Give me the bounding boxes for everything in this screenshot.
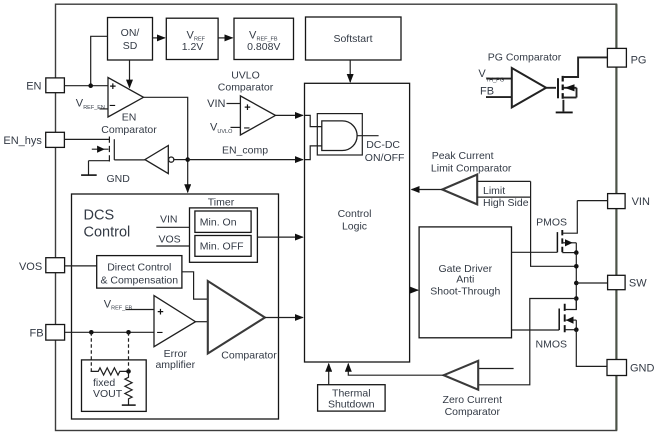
svg-text:Shoot-Through: Shoot-Through [430, 286, 500, 298]
svg-text:Timer: Timer [208, 196, 235, 208]
svg-text:VIN: VIN [160, 214, 178, 226]
node limit junction [574, 264, 579, 269]
svg-text:ON/: ON/ [121, 27, 140, 39]
label fixed VOUT [93, 377, 123, 400]
svg-text:VOUT: VOUT [93, 388, 123, 400]
svg-text:–: – [109, 100, 115, 112]
transistor NMOS [559, 299, 576, 335]
wire VREF_FB to + input [126, 309, 155, 311]
label Peak Current Limit Comparator [431, 150, 512, 175]
svg-text:Limit: Limit [483, 185, 505, 197]
svg-text:High Side: High Side [483, 197, 529, 209]
node junction on EN wire [88, 83, 93, 88]
label NMOS [536, 338, 568, 350]
block Thermal Shutdown [318, 385, 386, 411]
block VREF 1.2V [166, 18, 218, 59]
svg-text:+: + [244, 102, 250, 114]
svg-text:amplifier: amplifier [155, 359, 195, 371]
transistor PG FET [558, 57, 607, 111]
op-amp DCS comparator [208, 281, 265, 354]
label VIN [207, 98, 225, 110]
wire zero current output to Control Logic [348, 364, 443, 375]
wire PMOS drain to VIN pin [577, 200, 607, 202]
block Control Logic [305, 83, 410, 362]
wire VIN to + input [227, 103, 241, 105]
svg-text:SD: SD [123, 40, 138, 52]
svg-text:VOS: VOS [159, 233, 181, 245]
svg-text:Control: Control [338, 208, 372, 220]
wire FB input [486, 96, 512, 98]
wire gate driver to PMOS gate [512, 251, 558, 253]
block Timer [190, 208, 258, 262]
svg-text:EN_comp: EN_comp [222, 144, 268, 156]
svg-text:EN: EN [122, 112, 137, 124]
svg-text:Anti: Anti [456, 273, 474, 285]
AND gate box [317, 114, 362, 155]
pin EN [26, 78, 64, 93]
svg-text:PG Comparator: PG Comparator [488, 51, 562, 63]
wire VOS to timer [156, 245, 189, 247]
wire arrow ON/SD to VREF [153, 37, 165, 39]
pin PG [607, 48, 646, 67]
svg-text:VIN: VIN [207, 98, 225, 110]
svg-text:UVLO: UVLO [217, 129, 233, 135]
pin VIN [608, 194, 650, 209]
label PMOS [536, 217, 567, 229]
label Timer [208, 196, 235, 208]
label Limit High Side [483, 185, 529, 209]
op-amp EN comparator [108, 78, 144, 118]
pin GND [607, 360, 655, 376]
label VIN (timer input) [160, 214, 178, 226]
op-amp peak current limit comparator [442, 175, 477, 205]
wire Direct Control to comparator [182, 272, 208, 299]
wire NMOS drain sense to zero current comparator [478, 299, 576, 385]
svg-text:Logic: Logic [342, 220, 367, 232]
svg-text:VIN: VIN [632, 196, 650, 208]
wire arrow timer output to Control Logic [257, 236, 302, 238]
node FB junction 2 [126, 330, 131, 335]
wire EN_comp to Control Logic [188, 144, 303, 159]
wire SW bus [575, 253, 577, 310]
ground (PG FET) [556, 111, 573, 113]
wire arrow ON/SD down into EN comparator [129, 60, 131, 88]
wire EN node up to ON/SD [91, 36, 108, 85]
wire jog EN_comp input to AND gate [305, 146, 322, 160]
transistor EN_hys FET [89, 137, 115, 176]
wire gate driver to NMOS gate [512, 329, 560, 331]
transistor PMOS [557, 201, 577, 254]
pin FB [30, 325, 65, 341]
svg-text:SW: SW [629, 278, 647, 290]
svg-text:ON/OFF: ON/OFF [365, 152, 405, 164]
inverter (EN_comp) [145, 146, 174, 174]
node PMOS source [574, 250, 579, 255]
block VREF_FB 0.808V [234, 18, 294, 59]
pin EN_hys [3, 132, 64, 147]
wire arrow VREF to VREF_FB [218, 37, 232, 39]
svg-text:PMOS: PMOS [536, 217, 567, 229]
wire VTH_PG input [486, 78, 512, 80]
svg-text:+: + [157, 306, 163, 318]
wire inverter to EN_comp node [174, 159, 188, 161]
wire limit bottom input [477, 196, 530, 198]
op-amp zero current comparator [444, 361, 479, 390]
svg-text:1.2V: 1.2V [182, 41, 204, 53]
svg-text:DCS: DCS [84, 208, 115, 224]
op-amp PG comparator [512, 68, 546, 107]
block DCS Control [72, 194, 279, 419]
svg-text:Comparator: Comparator [101, 124, 157, 136]
wire VREF_EN to - input [100, 108, 109, 110]
svg-text:REF_FB: REF_FB [111, 306, 132, 312]
svg-text:–: – [157, 327, 163, 339]
label VREF_FB (error amp input) [104, 298, 133, 311]
svg-text:FB: FB [480, 85, 494, 97]
svg-text:Limit Comparator: Limit Comparator [431, 163, 512, 175]
wire arrow comparator output to Control Logic [265, 317, 303, 319]
node NMOS source [574, 327, 579, 332]
ground [81, 173, 130, 185]
AND gate DC-DC ON/OFF [322, 121, 405, 164]
svg-text:EN: EN [26, 81, 41, 93]
wire EN comparator output right and down to DCS control [144, 97, 188, 192]
svg-text:–: – [244, 122, 250, 134]
label VUVLO [210, 122, 233, 135]
wire VOS pin to Direct Control [65, 265, 97, 267]
svg-text:GND: GND [107, 173, 131, 185]
block fixed VOUT [82, 360, 147, 412]
block Min. On [195, 211, 251, 232]
block ON/SD [108, 18, 153, 61]
wire dashed FB tap 2 [128, 332, 130, 369]
ground (fixed VOUT) [122, 404, 136, 406]
wire limit sense down to PMOS source node [531, 181, 577, 266]
pin VOS [19, 258, 65, 273]
label VOS (timer input) [159, 233, 181, 245]
svg-text:Direct Control: Direct Control [107, 261, 171, 273]
wire arrow peak limit output to Control Logic [412, 189, 443, 191]
svg-text:EN_hys: EN_hys [3, 135, 42, 147]
svg-text:Peak Current: Peak Current [432, 150, 494, 162]
wire jog UVLO input to AND gate [305, 115, 322, 126]
svg-text:DC-DC: DC-DC [366, 139, 400, 151]
svg-text:Min. On: Min. On [200, 217, 237, 229]
wire bus to SW pin [576, 282, 607, 284]
node FB junction 1 [89, 330, 94, 335]
resistor R top (horizontal) [91, 368, 129, 375]
resistor R bottom (vertical) [125, 371, 132, 405]
svg-text:Comparator: Comparator [218, 82, 274, 94]
svg-text:PG: PG [631, 55, 647, 67]
wire dashed FB tap 1 [90, 332, 92, 371]
svg-text:+: + [110, 81, 116, 93]
svg-text:Control: Control [84, 225, 131, 241]
block Gate Driver Anti Shoot-Through [419, 227, 511, 338]
wire arrow Control Logic to Gate Driver [410, 289, 418, 291]
label VTH_PG [478, 68, 504, 83]
wire arrow thermal shutdown to Control Logic [328, 364, 330, 385]
svg-text:Zero Current: Zero Current [443, 394, 503, 406]
wire NMOS source to GND pin [576, 330, 607, 367]
wire EN_hys to transistor [64, 138, 109, 140]
svg-text:Shutdown: Shutdown [328, 398, 375, 410]
wire PG comparator to FET gate [546, 87, 556, 89]
node SW junction [574, 281, 579, 286]
label UVLO Comparator [218, 70, 274, 94]
label Error amplifier [155, 348, 195, 371]
label PG Comparator [488, 51, 562, 63]
node resistor junction [126, 369, 131, 374]
svg-text:NMOS: NMOS [536, 338, 568, 350]
wire FET gate to inverter output [114, 159, 145, 161]
block Direct Control & Compensation [97, 256, 182, 289]
svg-text:GND: GND [630, 362, 655, 374]
svg-text:FB: FB [30, 327, 44, 339]
op-amp UVLO comparator [240, 96, 275, 135]
svg-text:VOS: VOS [19, 261, 42, 273]
wire arrow UVLO output to Control Logic [276, 114, 303, 116]
wire zero current upper stub [478, 368, 513, 370]
svg-text:Comparator: Comparator [445, 406, 501, 418]
wire EN pin to comparator + input [64, 85, 108, 87]
block Min. OFF [195, 236, 251, 257]
wire VUVLO to - input [231, 126, 241, 128]
wire FB pin to error amp - input [65, 331, 154, 333]
svg-text:REF_EN: REF_EN [83, 105, 105, 111]
svg-text:Comparator: Comparator [221, 349, 277, 361]
node NMOS drain junction [574, 296, 579, 301]
svg-text:UVLO: UVLO [231, 70, 260, 82]
op-amp error amplifier [154, 296, 196, 347]
svg-text:Softstart: Softstart [333, 33, 372, 45]
wire arrow Softstart down to Control Logic [349, 60, 351, 82]
label Zero Current Comparator [443, 394, 503, 418]
node EN_comp junction [185, 157, 190, 162]
label Comparator [221, 349, 277, 361]
svg-text:Min. OFF: Min. OFF [200, 240, 244, 252]
wire limit top input [477, 180, 530, 182]
svg-text:0.808V: 0.808V [247, 41, 280, 53]
block Softstart [306, 17, 402, 60]
label VREF_EN [76, 98, 105, 111]
wire VIN to timer [156, 226, 189, 228]
pin SW [608, 275, 648, 289]
label FB (PG comparator input) [480, 85, 494, 97]
label EN Comparator [101, 112, 157, 136]
wire error amp to comparator [196, 321, 208, 323]
svg-text:& Compensation: & Compensation [100, 274, 178, 286]
